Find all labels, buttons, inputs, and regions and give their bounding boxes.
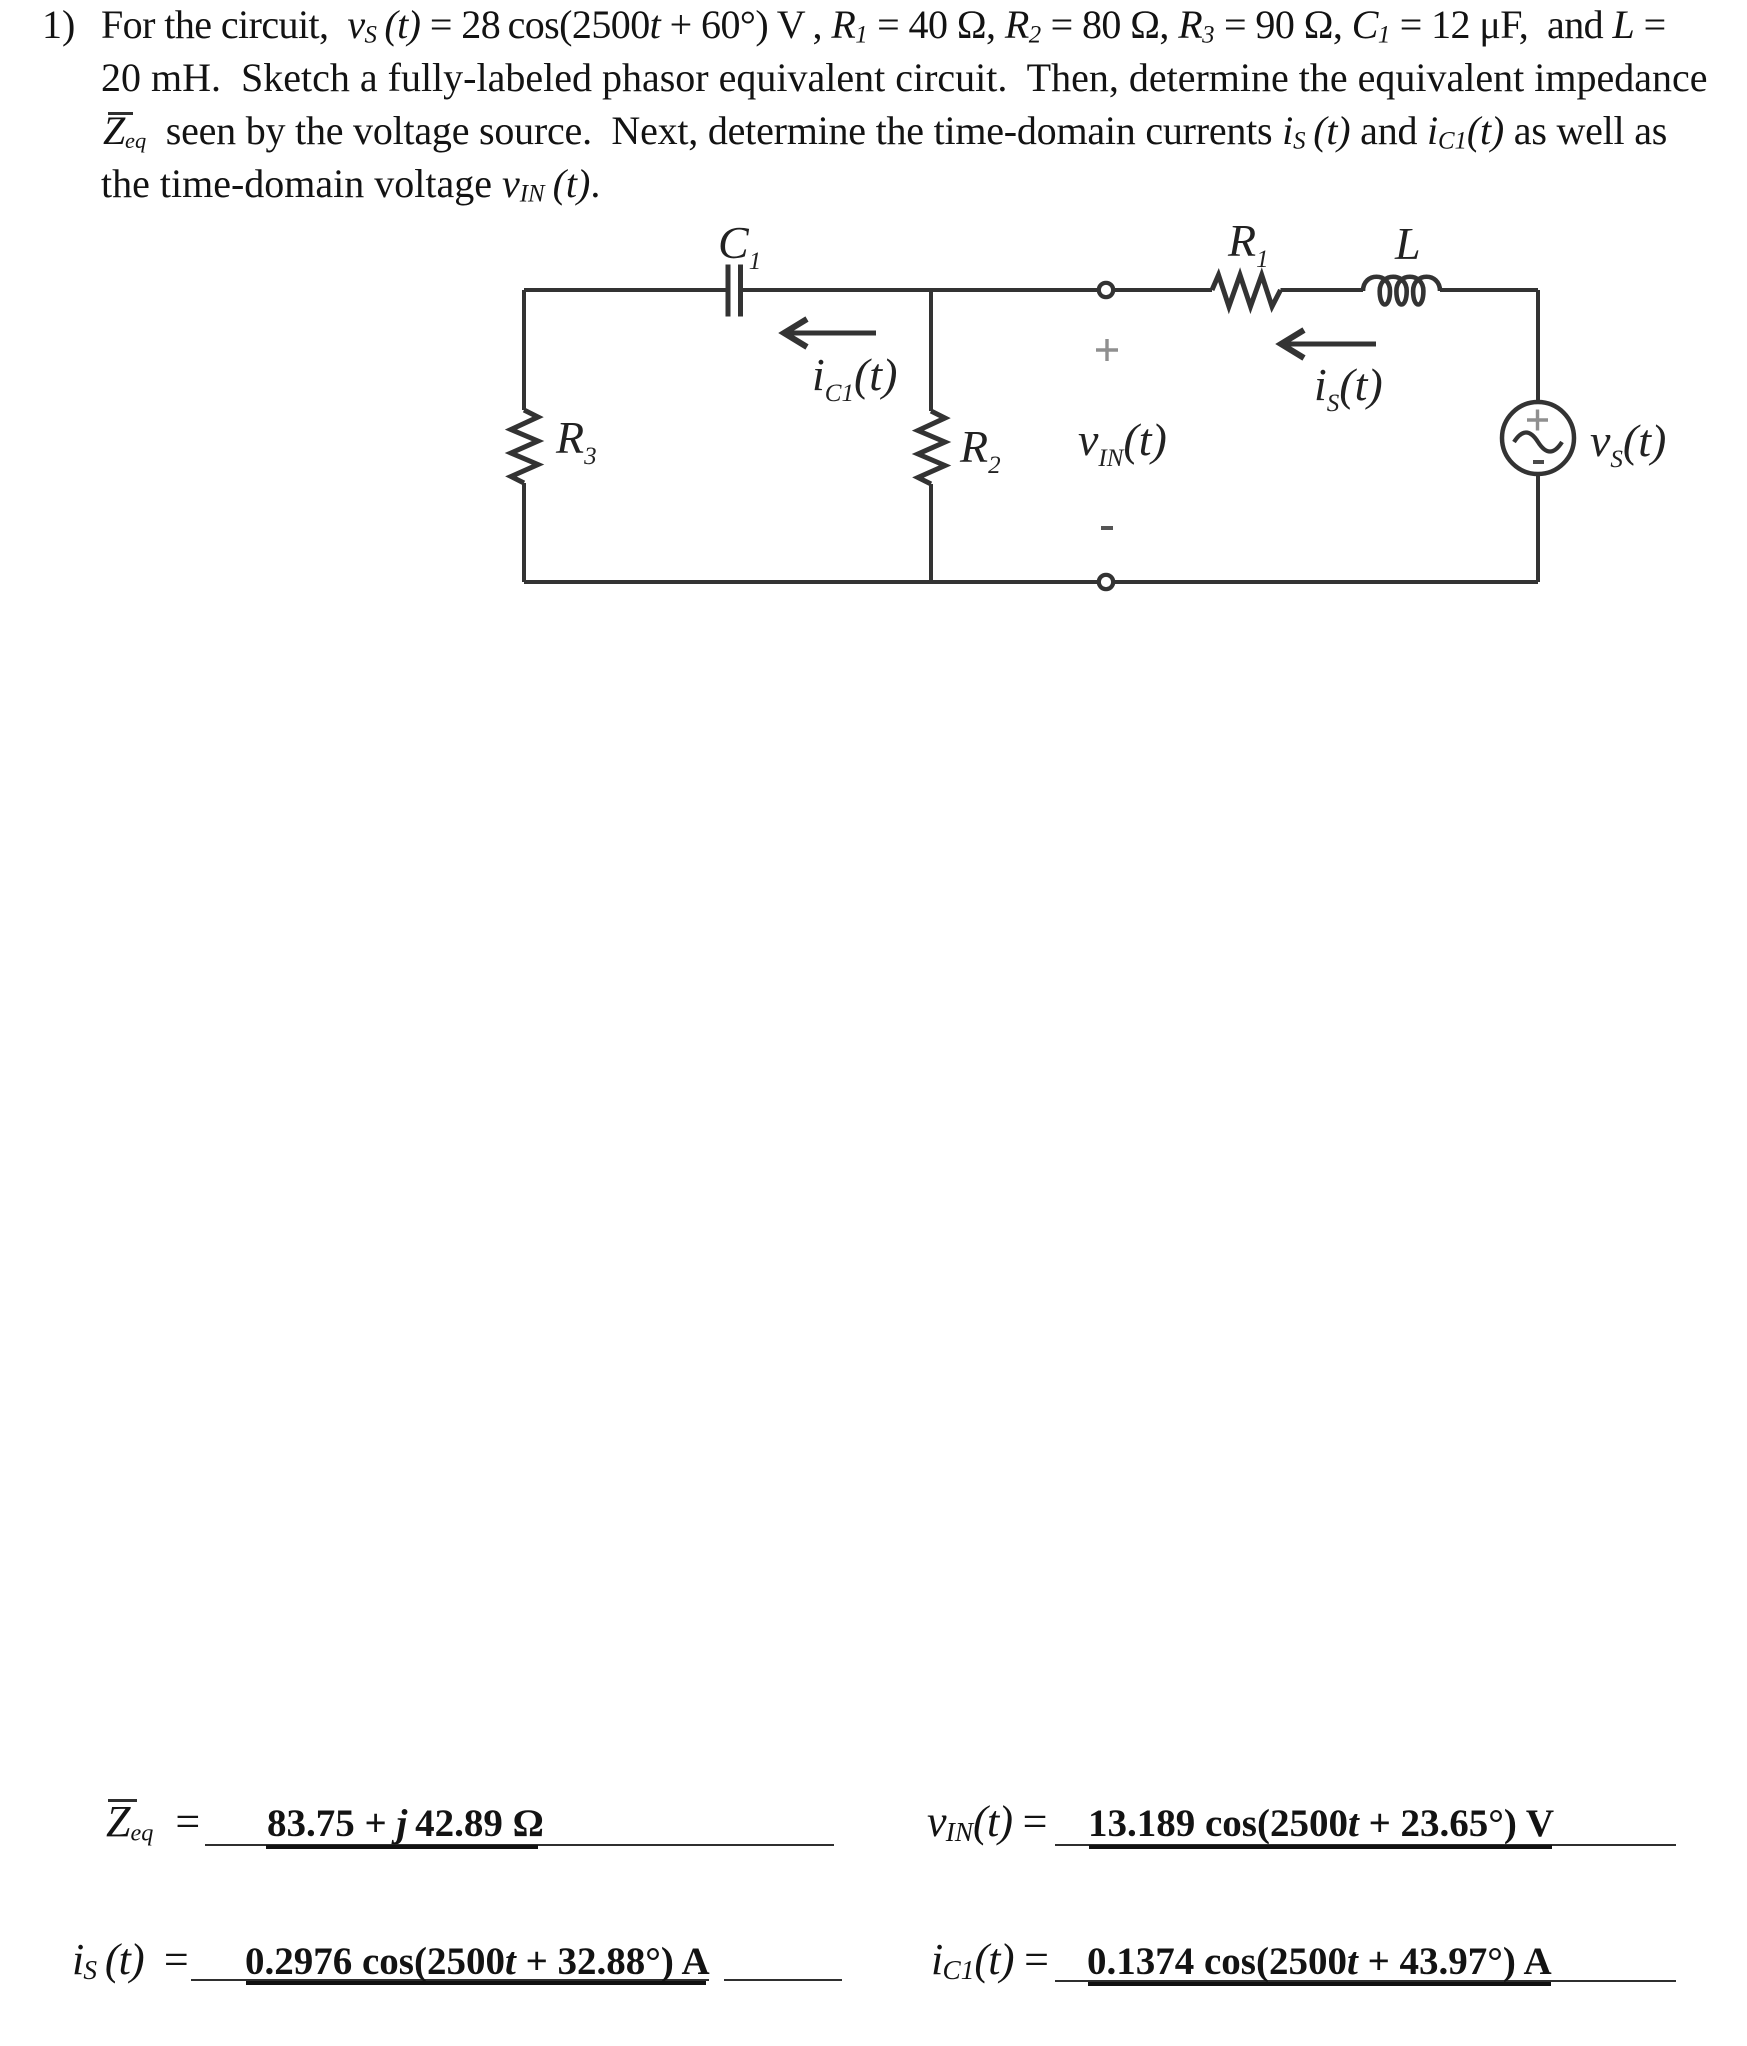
- label vIN(t): [1078, 417, 1167, 482]
- resistor R1: [1212, 275, 1281, 307]
- Zeq blank line: [205, 1844, 834, 1846]
- Zeq label: [106, 1800, 200, 1855]
- wire left upper: [522, 290, 526, 410]
- plus sign vIN: [1096, 339, 1118, 361]
- vIN answer: [1088, 1804, 1554, 1843]
- label iC1(t): [812, 352, 897, 417]
- wire top R1-to-L: [1281, 288, 1364, 292]
- source plus: [1527, 410, 1548, 431]
- node bottom (open terminal): [1099, 575, 1113, 589]
- paragraph line 2: [101, 51, 1707, 104]
- vIN label: [927, 1800, 1047, 1854]
- is blank line: [191, 1979, 709, 1981]
- wire left lower: [522, 483, 526, 582]
- arrow is: [1281, 330, 1376, 358]
- minus sign vIN: [1101, 526, 1113, 530]
- is answer: [245, 1942, 710, 1981]
- iC1 answer: [1087, 1942, 1552, 1981]
- wire middle upper (R2 top lead): [929, 290, 933, 411]
- label L: [1395, 221, 1421, 267]
- label is(t): [1314, 362, 1383, 427]
- inductor L: [1363, 277, 1440, 305]
- label vs(t): [1590, 418, 1666, 483]
- wire top-left (C1 left lead): [524, 288, 726, 292]
- arrow iC1: [784, 319, 876, 347]
- wire right lower (source to bottom): [1536, 474, 1540, 582]
- resistor R2: [918, 411, 945, 484]
- wire middle lower (R2 bottom lead): [929, 484, 933, 582]
- label C1: [718, 220, 761, 285]
- source minus: [1533, 460, 1544, 464]
- paragraph line 4: [101, 157, 600, 210]
- wire top-middle (C1 to R1): [742, 288, 1212, 292]
- iC1 blank line: [1055, 1980, 1676, 1982]
- wire bottom: [524, 580, 1538, 584]
- resistor R3: [511, 410, 538, 483]
- source sine: [1514, 433, 1562, 452]
- wire right upper (to source): [1536, 290, 1540, 402]
- wire top L-to-right-corner: [1440, 288, 1538, 292]
- label R1: [1228, 218, 1269, 283]
- node top (open terminal): [1099, 283, 1113, 297]
- source vs circle: [1502, 402, 1574, 474]
- paragraph line 3: [103, 104, 1667, 157]
- Zeq answer: [267, 1804, 544, 1843]
- paragraph line 1: [42, 0, 75, 51]
- label R2: [960, 424, 1001, 489]
- capacitor C1: [728, 265, 741, 317]
- vIN blank line: [1055, 1844, 1676, 1846]
- iC1 label: [931, 1938, 1048, 1992]
- is label: [72, 1938, 188, 1992]
- label R3: [556, 415, 597, 480]
